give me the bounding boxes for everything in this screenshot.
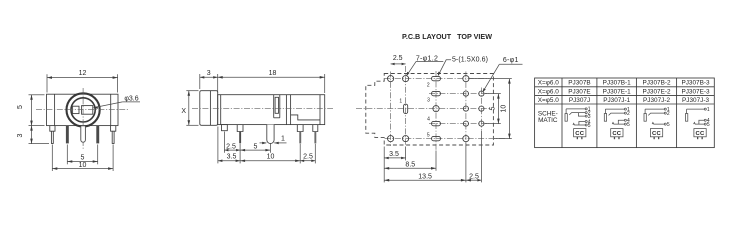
dim 5 bottom line: [67, 161, 97, 163]
side view body inner left wall: [220, 95, 222, 125]
svg-text:PJ307E-2: PJ307E-2: [642, 88, 671, 95]
svg-text:8.5: 8.5: [405, 161, 415, 168]
dim 1 pin lines: [260, 142, 267, 144]
pcb dim 2.5 top line: [391, 63, 406, 65]
sch2 CC box: [611, 129, 623, 137]
svg-text:X=φ6.0: X=φ6.0: [538, 88, 559, 95]
slot row2: [432, 91, 441, 95]
slot row5: [432, 136, 441, 140]
sch2 wire to 1: [605, 108, 624, 110]
pcb dim 13.5 line: [384, 179, 466, 181]
front view pin 4: [96, 126, 99, 144]
sch1 wire to 4: [579, 122, 585, 126]
side view barrel inner line: [209, 91, 211, 126]
table border: [535, 78, 715, 148]
side view pin 5: [313, 125, 318, 132]
pcb centerline col E: [480, 88, 482, 131]
front view pin 5: [111, 126, 116, 144]
svg-text:12: 12: [79, 70, 87, 77]
svg-text:5: 5: [17, 105, 24, 109]
sch3 wire to 2: [648, 113, 664, 115]
pcb centerline col C: [435, 71, 437, 150]
dim 10 bottom line: [52, 168, 113, 170]
svg-text:2.5: 2.5: [226, 143, 236, 150]
hole 1 E row2: [479, 91, 484, 96]
svg-text:PJ307B: PJ307B: [568, 80, 590, 87]
svg-text:PJ307B-2: PJ307B-2: [642, 80, 671, 87]
svg-text:2.5: 2.5: [393, 55, 403, 62]
hole 1.2 bottom D: [463, 136, 469, 142]
side view body: [218, 95, 325, 125]
svg-text:3.5: 3.5: [227, 154, 237, 161]
pcb centerline row4: [429, 123, 489, 125]
side view right cavity wall: [319, 95, 321, 125]
svg-text:10: 10: [267, 154, 275, 161]
pcb dim 5 right line: [497, 94, 499, 124]
side bottom extension lines: [217, 127, 219, 164]
dim 3 top line: [200, 76, 218, 78]
hole 1 D row3: [463, 106, 468, 111]
svg-text:5: 5: [627, 122, 630, 128]
svg-text:5: 5: [427, 132, 430, 138]
front view barrel inner circle: [71, 98, 95, 122]
hole 1.2 top A: [388, 76, 394, 82]
pcb centerline col D: [465, 72, 467, 147]
svg-text:PJ307E: PJ307E: [568, 88, 590, 95]
dim 10 line (row2): [240, 160, 300, 162]
svg-text:13.5: 13.5: [418, 173, 432, 180]
sch4 sleeve: [686, 114, 688, 122]
svg-text:CC: CC: [696, 131, 705, 137]
side view centerline: [192, 107, 333, 109]
side view stub pin: [222, 125, 228, 131]
label 6-phi1 leader: [483, 64, 499, 91]
svg-text:3: 3: [207, 70, 211, 77]
svg-text:PJ307B-1: PJ307B-1: [603, 80, 632, 87]
svg-text:φ3.6: φ3.6: [124, 95, 138, 102]
front view pin 1: [50, 126, 55, 144]
svg-text:CC: CC: [652, 131, 661, 137]
table row lines: [535, 86, 715, 88]
hole 1 E row4: [479, 121, 484, 126]
table column lines: [561, 78, 563, 148]
side view barrel: [200, 91, 218, 126]
dim X extension lines: [186, 90, 198, 92]
svg-text:3: 3: [17, 133, 24, 137]
slot row4: [432, 121, 441, 125]
svg-text:CC: CC: [575, 131, 584, 137]
sch4 wire to 4: [699, 120, 704, 124]
label 7-phi1.2 underline: [416, 60, 443, 62]
pcb centerline main row: [356, 108, 491, 110]
side view center sleeve pin: [267, 125, 274, 144]
sch1 wire to 2: [569, 113, 585, 115]
sch1 terminal circles: [585, 108, 587, 110]
pcb centerline col B: [405, 66, 407, 146]
front view vertical centerline: [82, 88, 84, 149]
svg-text:PJ307J-3: PJ307J-3: [682, 97, 709, 104]
sch1 wire to 1: [566, 108, 585, 110]
pcb bottom extension lines: [383, 147, 385, 183]
pcb right dim extension lines: [485, 93, 501, 95]
dim 3.5 line (row2): [218, 160, 240, 162]
dim 12 extension lines: [46, 74, 48, 92]
pcb dim 3.5 line: [384, 157, 405, 159]
slot row1: [432, 76, 441, 80]
pcb centerline row5: [385, 138, 506, 140]
sch3 terminal circles: [664, 108, 666, 110]
schematic 2 (PJ307x-1): [604, 107, 630, 139]
svg-text:2: 2: [627, 111, 630, 117]
side view partition wall 2: [290, 95, 292, 125]
front view horizontal centerline: [36, 109, 128, 111]
svg-text:P.C.B LAYOUT TOP VIEW: P.C.B LAYOUT TOP VIEW: [402, 32, 492, 41]
svg-text:PJ307B-3: PJ307B-3: [681, 80, 710, 87]
front view jack opening left rect: [73, 106, 79, 113]
sch1 wire to 5: [573, 123, 585, 125]
pcb centerline row1: [385, 78, 490, 80]
sch1 sleeve: [565, 114, 567, 122]
sch2 wire to 5: [612, 123, 624, 125]
front view jack opening right rect: [82, 106, 93, 115]
svg-text:5: 5: [707, 122, 710, 128]
label 7-phi1.2 leader: [407, 61, 416, 75]
pcb dim 2.5 bottom line: [466, 179, 482, 181]
dim X line: [188, 91, 190, 126]
sch4 wire to 1: [687, 108, 705, 110]
svg-text:18: 18: [269, 70, 277, 77]
svg-text:5-(1.5X0.6): 5-(1.5X0.6): [452, 57, 488, 64]
svg-text:1: 1: [707, 107, 710, 113]
dim 12 line: [47, 77, 118, 79]
side view channel bottom: [274, 117, 280, 119]
side view partition wall 1: [285, 95, 287, 125]
phi3.6 underline: [122, 101, 140, 103]
svg-text:PJ307J: PJ307J: [569, 97, 590, 104]
sch1 CC box: [574, 129, 586, 137]
front view center sleeve pin: [81, 126, 86, 142]
svg-text:PJ307E-3: PJ307E-3: [681, 88, 710, 95]
front view body: [47, 94, 119, 125]
svg-text:5: 5: [667, 122, 670, 128]
sch3 sleeve: [644, 114, 646, 122]
pcb dim 10 right line: [508, 79, 510, 139]
side view channel right: [279, 95, 281, 118]
phi3.6 leader: [94, 102, 122, 108]
svg-text:4: 4: [427, 116, 430, 122]
sch4 terminal circles: [704, 108, 706, 110]
sch1 wire to 3: [578, 113, 585, 116]
hole 1 D row2: [463, 91, 468, 96]
schematic 4 (PJ307x-3): [686, 107, 710, 139]
sch2 wire to 4: [618, 120, 624, 124]
side view channel inner rect: [275, 97, 278, 113]
svg-text:PJ307J-2: PJ307J-2: [643, 97, 670, 104]
hole 1.2 mid C: [433, 106, 439, 112]
hole 1.2 top B: [403, 76, 409, 82]
hole 1.2 bottom A: [388, 136, 394, 142]
dim 5 line (row1): [240, 149, 270, 151]
slot 1 vertical: [404, 104, 408, 113]
hole 1 E row3: [479, 106, 484, 111]
side view channel left: [273, 95, 275, 118]
sch3 wire to 1: [645, 108, 664, 110]
schematic 3 (PJ307x-2): [644, 107, 670, 139]
side view pin 2: [237, 125, 243, 132]
hole 1.2 top D: [463, 76, 469, 82]
front view inner wall right: [110, 94, 112, 125]
front view inner wall left: [54, 94, 56, 125]
side view pin 4: [297, 125, 303, 132]
front view barrel outer circle: [67, 93, 100, 126]
svg-text:5: 5: [254, 143, 258, 150]
pcb centerline row2: [429, 93, 489, 95]
dim 2.5 line (row2 right): [300, 160, 315, 162]
schematic 1 (PJ307B/E/J): [565, 107, 591, 140]
dim 18 line: [218, 76, 325, 78]
label 5-slot leader: [439, 60, 452, 75]
sch4 wire to 5: [694, 123, 705, 125]
svg-text:5: 5: [81, 154, 85, 161]
pcb dim 8.5 line: [384, 167, 436, 169]
svg-text:2: 2: [667, 111, 670, 117]
dim 18 extension lines: [217, 74, 219, 93]
svg-text:2: 2: [427, 83, 430, 89]
hole 1.2 bottom B: [403, 136, 409, 142]
svg-text:1: 1: [281, 136, 285, 143]
svg-text:2.5: 2.5: [303, 154, 313, 161]
hole 1 D row4: [463, 121, 468, 126]
front bottom dim extension lines: [51, 145, 53, 172]
svg-text:2.5: 2.5: [469, 173, 479, 180]
dim 3 top extension line: [199, 74, 201, 89]
svg-text:PJ307E-1: PJ307E-1: [603, 88, 632, 95]
svg-text:X: X: [181, 108, 186, 115]
svg-text:MATIC: MATIC: [538, 117, 558, 124]
sch2 terminal circles: [624, 108, 626, 110]
svg-text:1: 1: [399, 98, 402, 104]
sch2 wire to 2: [609, 113, 625, 115]
front view pin 2: [66, 126, 69, 144]
sch4 CC box: [694, 129, 706, 137]
sch2 sleeve: [604, 114, 606, 122]
front left dim extension lines: [29, 94, 45, 96]
svg-text:3.5: 3.5: [389, 151, 399, 158]
dim 2.5 line (row1): [224, 149, 240, 151]
label 6-phi1 underline: [499, 63, 522, 65]
sch3 CC box: [650, 129, 662, 137]
side view interior step: [291, 115, 320, 120]
svg-text:6-φ1: 6-φ1: [503, 57, 519, 64]
pcb centerline col A: [390, 72, 392, 147]
svg-text:10: 10: [79, 162, 87, 169]
sch3 wire to 5: [652, 123, 664, 125]
svg-text:PJ307J-1: PJ307J-1: [603, 97, 630, 104]
svg-text:X=φ5.0: X=φ5.0: [538, 97, 559, 104]
svg-text:3: 3: [427, 98, 430, 104]
dim 5 left line: [31, 95, 33, 144]
pcb footprint dashed outline: [366, 74, 494, 146]
svg-text:X=φ6.0: X=φ6.0: [538, 80, 559, 87]
svg-text:CC: CC: [612, 131, 621, 137]
svg-text:5: 5: [490, 107, 497, 111]
svg-text:10: 10: [501, 105, 508, 113]
svg-text:5: 5: [588, 123, 591, 129]
